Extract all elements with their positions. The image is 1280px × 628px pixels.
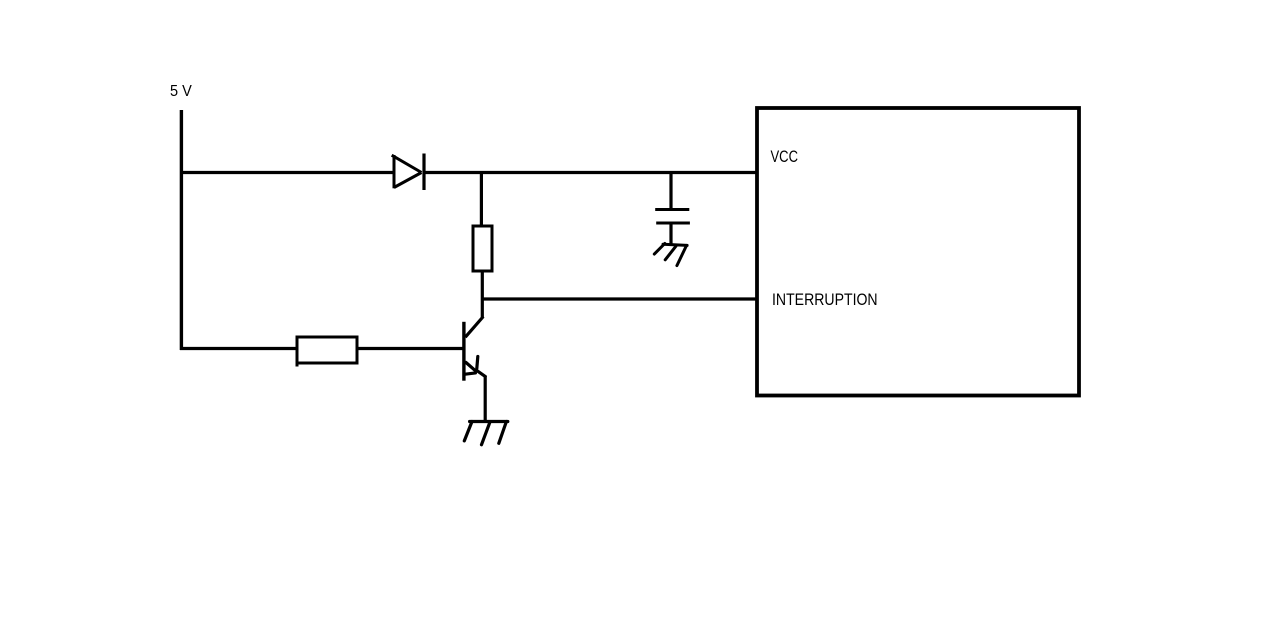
svg-text:INTERRUPTION: INTERRUPTION [772, 291, 878, 309]
svg-text:VCC: VCC [771, 147, 799, 166]
svg-text:5 V: 5 V [170, 83, 192, 100]
